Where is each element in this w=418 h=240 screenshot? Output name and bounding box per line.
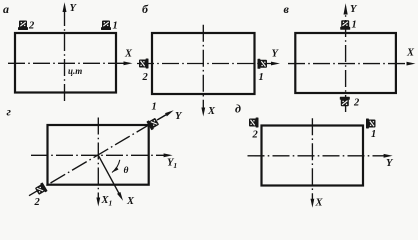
svg-text:1: 1	[259, 72, 264, 83]
label 2 (г)	[34, 197, 41, 208]
svg-text:X: X	[207, 106, 216, 117]
svg-text:а: а	[3, 2, 9, 16]
panel label а	[3, 2, 9, 16]
label 2 (б)	[142, 72, 149, 83]
svg-text:X: X	[315, 198, 324, 209]
X axis label (б)	[207, 106, 216, 117]
svg-text:X: X	[406, 48, 415, 59]
X axis arrowhead (а)	[124, 61, 133, 65]
body rectangle (panel в)	[295, 33, 396, 93]
rotated X axis arrowhead (г)	[117, 192, 123, 201]
panel label д	[235, 102, 241, 116]
Y axis centre line (а)	[64, 8, 66, 101]
svg-text:д: д	[235, 102, 241, 116]
X1 axis centre line (г)	[97, 118, 99, 202]
accelerometer 2 (д)	[249, 118, 259, 128]
svg-text:Y: Y	[175, 111, 183, 122]
X axis centre line (в)	[288, 63, 410, 65]
svg-text:1: 1	[152, 102, 157, 113]
X axis centre line (б)	[202, 25, 204, 111]
label 1 (г)	[152, 102, 157, 113]
X axis arrowhead (д)	[311, 199, 315, 208]
svg-text:2: 2	[142, 72, 149, 83]
svg-text:1: 1	[113, 21, 118, 32]
label 2 (в)	[353, 98, 360, 109]
Y1 axis label (г)	[167, 158, 177, 171]
svg-text:2: 2	[353, 98, 360, 109]
label 2 (а)	[28, 21, 35, 32]
accelerometer 2 (в)	[340, 97, 350, 107]
label 2 (д)	[252, 130, 259, 141]
diagonal Y axis centre line (г)	[29, 112, 170, 195]
svg-text:Y: Y	[350, 4, 358, 15]
svg-text:Y: Y	[386, 158, 394, 169]
X axis centre line (д)	[311, 118, 313, 202]
accelerometer 1 (г)	[146, 117, 159, 130]
label 1 (б)	[259, 72, 264, 83]
accelerometer 1 (б)	[258, 59, 268, 69]
accelerometer 1 (в)	[340, 20, 350, 30]
svg-text:2: 2	[252, 130, 259, 141]
X1 axis label (г)	[101, 195, 113, 208]
accelerometer 1 (д)	[366, 119, 376, 129]
svg-text:г: г	[7, 105, 12, 119]
Y axis label (б)	[272, 49, 280, 60]
svg-text:X: X	[126, 196, 135, 207]
accelerometer 2 (а)	[18, 21, 28, 31]
body rectangle (panel б)	[152, 33, 255, 94]
panel label б	[142, 2, 149, 16]
svg-text:1: 1	[352, 20, 357, 31]
X axis label (а)	[124, 49, 133, 60]
angle theta arc arrowhead (г)	[112, 167, 119, 173]
Y axis label (в)	[350, 4, 358, 15]
rotated X axis line (г)	[98, 155, 120, 196]
svg-text:1: 1	[371, 129, 376, 140]
rotated X axis label (г)	[126, 196, 135, 207]
svg-text:Y: Y	[272, 49, 280, 60]
accelerometer 2 (б)	[139, 59, 149, 69]
body rectangle (panel а)	[15, 33, 116, 93]
Y axis centre line (д)	[248, 155, 388, 157]
Y1 axis centre line (г)	[31, 154, 167, 156]
accelerometer 1 (а)	[101, 21, 111, 31]
svg-text:2: 2	[34, 197, 41, 208]
X axis label (д)	[315, 198, 324, 209]
X1 axis arrowhead (г)	[96, 198, 100, 207]
Y axis label (а)	[70, 3, 78, 14]
X axis centre line (а)	[8, 62, 127, 64]
svg-text:X: X	[124, 49, 133, 60]
diagonal Y axis label (г)	[175, 111, 183, 122]
svg-text:б: б	[142, 2, 149, 16]
svg-text:θ: θ	[124, 166, 129, 176]
svg-text:в: в	[284, 2, 290, 16]
panel label г	[7, 105, 12, 119]
Y axis arrowhead (в)	[344, 3, 348, 14]
angle theta arc (г)	[112, 160, 120, 173]
svg-text:Y: Y	[70, 3, 78, 14]
Y axis arrowhead (д)	[384, 154, 393, 158]
svg-text:2: 2	[28, 21, 35, 32]
label 1 (а)	[113, 21, 118, 32]
accelerometer 2 (г)	[34, 182, 47, 195]
svg-text:X1: X1	[101, 195, 113, 208]
body rectangle (panel д)	[262, 126, 364, 186]
body rectangle (panel г)	[48, 125, 149, 185]
centre of gravity label ц.т (а)	[68, 66, 82, 76]
Y axis arrowhead (а)	[63, 2, 67, 12]
Y axis label (д)	[386, 158, 394, 169]
Y axis arrowhead (б)	[271, 62, 280, 66]
diagonal Y axis arrowhead (г)	[165, 110, 174, 116]
Y axis centre line (б)	[137, 63, 275, 65]
X axis arrowhead (в)	[407, 62, 416, 66]
angle theta label (г)	[124, 166, 129, 176]
label 1 (в)	[352, 20, 357, 31]
X axis arrowhead (б)	[201, 108, 205, 117]
label 1 (д)	[371, 129, 376, 140]
Y1 axis arrowhead (г)	[164, 153, 173, 157]
panel label в	[284, 2, 290, 16]
svg-text:Y1: Y1	[167, 158, 177, 171]
Y axis centre line (в)	[345, 9, 347, 112]
svg-text:ц.т: ц.т	[68, 66, 82, 76]
X axis label (в)	[406, 48, 415, 59]
